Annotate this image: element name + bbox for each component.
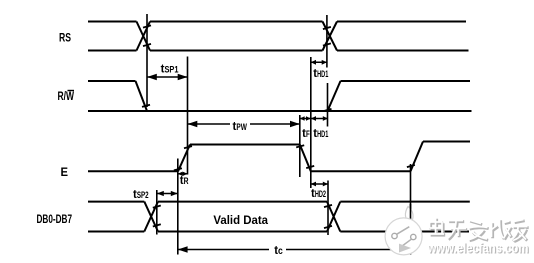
RS rails right (337, 22, 469, 51)
E falling edge (300, 145, 311, 172)
E rising edge 1 (178, 145, 190, 172)
reference line 9 (DB X1 / tSP2 left) (156, 190, 158, 235)
tick E falling edge end (306, 166, 314, 168)
svg-text:tHD1: tHD1 (313, 68, 328, 80)
tick RS transition 2 bottom measurement point (323, 43, 331, 45)
arrow tC (178, 249, 411, 251)
tick RS transition 1 bottom measurement point (143, 44, 151, 46)
reference line 4 (E fall end / tHD1 left) (310, 57, 312, 188)
overline on W of R/W label (68, 90, 75, 92)
svg-text:tc: tc (274, 245, 283, 257)
svg-text:RS: RS (59, 31, 71, 45)
RS crossover X1 (137, 22, 151, 51)
arrow tHD2 (311, 183, 328, 185)
watermark logo circle (385, 218, 422, 255)
RS crossover X2 (323, 22, 338, 51)
reference line 2 (tSP1 right / tPW left) (187, 57, 189, 175)
signal E low rail left (88, 170, 178, 172)
tick E rising edge 2 start (407, 165, 415, 167)
tick DB transition 1 bottom measurement point (153, 224, 161, 226)
arrow tHD1 top (311, 61, 327, 63)
arrow tHD1 bottom (311, 118, 328, 120)
svg-text:Valid Data: Valid Data (213, 213, 268, 227)
svg-text:tSP2: tSP2 (133, 189, 149, 201)
tick DB transition 1 top measurement point (153, 206, 161, 208)
RS rails middle (150, 22, 323, 51)
wire segment of reference line over leaf (410, 204, 412, 220)
arrow tF (300, 118, 311, 120)
signal RS top/bottom rails left (88, 22, 137, 51)
arrow tSP2 (157, 193, 178, 195)
reference line 3 (E fall start / tPW right) (299, 115, 301, 177)
tick RS transition 2 top measurement point (323, 27, 331, 29)
DB valid data rails (158, 202, 327, 232)
svg-text:tHD2: tHD2 (311, 188, 326, 200)
reference line 6 (R/W rise) (327, 83, 329, 127)
DB crossover X1 (144, 202, 158, 232)
watermark logo: leaf (385, 204, 422, 255)
DB crossover X2 (327, 202, 340, 232)
reference line 1 (RS X1 / tSP1 left) (146, 14, 148, 107)
reference line 10 (E rise 1 / tSP2 right / tC left) (177, 159, 179, 255)
svg-text:tSP1: tSP1 (161, 64, 179, 76)
tick R/W falling edge measurement point (142, 105, 150, 107)
E high rail right (423, 141, 470, 143)
svg-text:DB0-DB7: DB0-DB7 (37, 212, 73, 226)
reference line 7 (DB X2) (327, 181, 329, 236)
svg-text:tHD1: tHD1 (313, 128, 328, 140)
svg-text:tPW: tPW (233, 121, 248, 133)
tick RS transition 1 top measurement point (143, 25, 151, 27)
tick DB transition 2 top measurement point (324, 205, 332, 207)
tick E falling edge start (296, 145, 304, 147)
E rising edge 2 (411, 142, 424, 172)
tick DB transition 2 bottom measurement point (324, 226, 332, 228)
E high rail (190, 144, 300, 146)
svg-text:tR: tR (180, 175, 189, 187)
arrow tR (178, 173, 188, 175)
R/W low rail (88, 110, 472, 112)
R/W high rail right (341, 80, 471, 82)
arrow tPW (188, 123, 300, 125)
E low rail middle (311, 170, 411, 172)
white knockout behind tC label (269, 243, 286, 256)
dimension arrows (147, 60, 411, 253)
tick R/W rising edge measurement point (324, 109, 332, 111)
reference line 5 (RS X2) (326, 15, 328, 68)
signal DB0-DB7 rails left (88, 202, 144, 232)
signal R/W high rail left (88, 80, 136, 82)
svg-text:tF: tF (302, 128, 310, 140)
arrow tSP1 (147, 76, 188, 78)
R/W falling edge (136, 81, 148, 111)
reference line 8 (E rise 2 / tC right) (410, 164, 412, 255)
tick E rising edge 1 end (184, 146, 192, 148)
R/W rising edge (328, 81, 341, 111)
white knockout behind tPW label (230, 119, 250, 129)
measurement ticks (142, 25, 415, 228)
svg-text:E: E (61, 165, 69, 179)
tick E rising edge 1 start (174, 168, 182, 170)
DB rails right (340, 202, 470, 232)
svg-text:www.elecfans.com: www.elecfans.com (427, 241, 529, 256)
